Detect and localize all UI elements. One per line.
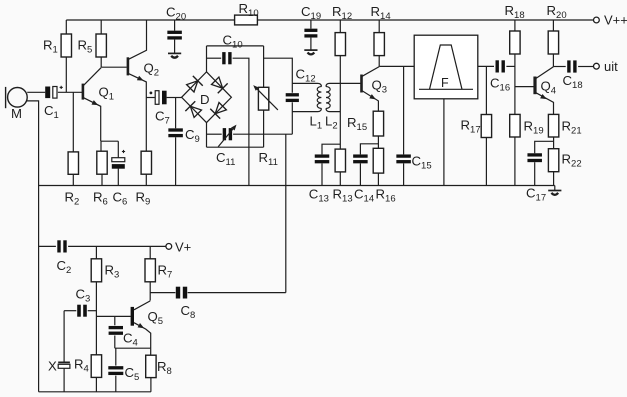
wire C12 bottom [291, 102, 293, 134]
wire bridge bottom node [207, 123, 222, 148]
wire filter ground [443, 99, 445, 186]
capacitor C5 [108, 348, 139, 392]
resistor R11 [253, 46, 278, 168]
capacitor C3 [64, 287, 96, 317]
resistor R19 [510, 114, 544, 185]
svg-text:F: F [441, 76, 449, 90]
capacitor C19 [301, 4, 321, 38]
svg-text:D: D [200, 92, 210, 107]
wire filter output [478, 65, 494, 67]
capacitor C7 [146, 91, 170, 127]
resistor R5 [78, 20, 107, 67]
capacitor C14 [353, 144, 378, 205]
wire R12 bias [339, 56, 341, 150]
capacitor C13 [309, 144, 341, 205]
wire R11 to C12 top [264, 58, 293, 92]
node V+ terminal [166, 240, 191, 255]
wire ground rail [39, 185, 555, 187]
wire C11 right [233, 133, 292, 135]
resistor R13 [333, 149, 353, 205]
resistor R14 [371, 4, 391, 66]
svg-text:uit: uit [604, 59, 618, 74]
resistor R22 [548, 149, 581, 186]
transistor Q3 [362, 67, 388, 112]
wire C16 to Q4 base node [506, 65, 515, 67]
transistor Q5 [131, 301, 163, 348]
svg-text:M: M [11, 106, 22, 121]
resistor R1 [43, 20, 72, 92]
wire R3 to base [95, 282, 97, 355]
resistor R16 [373, 148, 395, 204]
inductor L1 [292, 83, 322, 131]
resistor R12 [332, 4, 352, 56]
capacitor C18 [553, 60, 593, 91]
capacitor C11 [216, 125, 237, 169]
wire osc injection [285, 134, 287, 292]
inductor L2 [325, 83, 361, 131]
wire C10 to ground [233, 58, 249, 185]
capacitor C6 [112, 141, 128, 208]
wire V+ line [68, 245, 166, 247]
node V++ terminal [594, 13, 627, 28]
node uit terminal [594, 59, 619, 74]
transistor Q2 [128, 20, 159, 151]
transistor Q4 [535, 67, 556, 115]
wire bridge top node [207, 46, 264, 72]
resistor R9 [136, 151, 152, 208]
wire C8 to bridge net [188, 292, 286, 294]
wire Q4 base [515, 86, 534, 88]
wire mic signal [27, 91, 45, 93]
ground below C20 [168, 40, 181, 58]
diode D-right-bottom [210, 103, 226, 119]
resistor R20 [547, 3, 567, 67]
resistor R8 [146, 348, 172, 392]
wire V++ rail [66, 19, 593, 21]
capacitor C15 [396, 66, 431, 185]
wire mic ground [26, 101, 38, 186]
wire emitter link [101, 140, 118, 142]
wire R15 to R16 [377, 136, 379, 148]
filter F box [414, 35, 478, 99]
capacitor C1 [44, 86, 63, 121]
transistor Q1 [83, 68, 114, 142]
ground symbol [548, 186, 561, 195]
resistor R4 [74, 355, 102, 392]
crystal X [48, 311, 70, 392]
resistor R18 [505, 3, 525, 114]
resistor R10 [235, 1, 259, 25]
resistor R7 [145, 246, 172, 300]
wire C7 to bridge [167, 97, 182, 99]
diode bridge D outline [182, 72, 232, 123]
diode D-left-top [187, 76, 203, 92]
capacitor C2 [39, 240, 72, 276]
wire Q2 base [101, 66, 127, 68]
resistor R21 [548, 114, 581, 137]
wire R21 to R22 [553, 137, 555, 149]
microphone M [6, 87, 28, 121]
wire bridge bottom to R11 bottom [207, 146, 264, 148]
capacitor C8 [150, 287, 195, 322]
diode D-top-right [212, 77, 228, 93]
wire C1 to Q1 base [58, 91, 83, 93]
wire left ground bus [38, 186, 40, 392]
wire Q5 base [96, 315, 130, 317]
capacitor C9 [168, 98, 199, 186]
wire bottom rail [39, 391, 151, 393]
capacitor C17 [526, 141, 554, 203]
capacitor C20 [166, 5, 186, 40]
resistor R6 [93, 141, 108, 208]
capacitor C10 [222, 33, 242, 65]
wire emitter junction [115, 347, 151, 349]
resistor R2 [65, 92, 80, 207]
svg-text:V++: V++ [604, 13, 627, 28]
svg-text:X: X [48, 359, 57, 374]
capacitor C4 [109, 316, 138, 348]
svg-text:V+: V+ [175, 240, 191, 255]
ground below C19 [304, 38, 317, 55]
diode D-bottom-left [185, 101, 201, 117]
capacitor C16 [490, 60, 510, 93]
resistor R17 [461, 66, 492, 185]
capacitor C12 [286, 67, 316, 103]
wire Q3 collector to filter [379, 65, 414, 67]
resistor R15 [347, 111, 384, 136]
resistor R3 [91, 246, 119, 281]
